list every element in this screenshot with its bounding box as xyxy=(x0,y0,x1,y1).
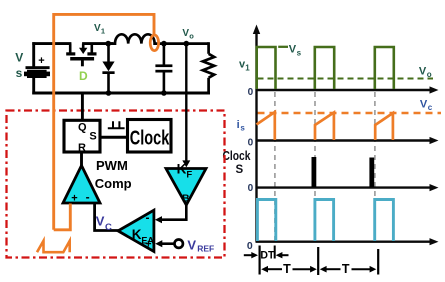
svg-text:o: o xyxy=(427,70,432,79)
grey dashed timing guide at t=2T xyxy=(374,92,376,241)
svg-text:S: S xyxy=(89,130,96,142)
diode cathode wire xyxy=(107,74,110,95)
period tick t=0 xyxy=(259,246,261,275)
svg-text:D: D xyxy=(79,69,88,83)
capacitor bottom wire xyxy=(163,72,166,95)
second T dimension arrows and label xyxy=(320,266,327,273)
svg-text:T: T xyxy=(283,262,291,276)
PWM comparator triangle xyxy=(63,166,100,204)
clock impulse 2 xyxy=(369,158,374,188)
rail junction dot at diode xyxy=(106,90,112,96)
svg-text:+: + xyxy=(38,55,44,67)
DT interval right arrow xyxy=(281,254,289,256)
shared vertical axis xyxy=(255,31,257,242)
clock block box xyxy=(128,120,172,153)
svg-text:s: s xyxy=(16,66,23,80)
svg-text:Clock: Clock xyxy=(223,148,252,163)
svg-text:0: 0 xyxy=(248,138,254,149)
svg-text:F: F xyxy=(186,170,192,181)
svg-text:V: V xyxy=(96,213,105,228)
diode triangle xyxy=(102,62,114,72)
svg-text:Clock: Clock xyxy=(130,127,170,149)
svg-text:V: V xyxy=(419,66,427,78)
orange wire left vertical run xyxy=(52,13,55,230)
resistor bottom wire xyxy=(207,78,210,95)
svg-text:V: V xyxy=(289,44,297,56)
is plot horizontal axis xyxy=(256,139,431,141)
Vs level tick xyxy=(278,46,288,48)
DT interval left arrow xyxy=(244,254,253,256)
svg-text:0: 0 xyxy=(247,240,253,252)
wire KF output to KEA minus input xyxy=(160,205,186,220)
svg-text:DT: DT xyxy=(260,250,274,262)
top rail left segment xyxy=(32,42,71,45)
wire comparator minus input down to Vc node xyxy=(95,202,119,231)
resistor zigzag xyxy=(203,54,214,78)
KF feedback gain triangle xyxy=(166,169,206,206)
battery left vertical wire top xyxy=(32,42,35,66)
svg-text:REF: REF xyxy=(197,244,214,254)
svg-text:-: - xyxy=(86,190,90,204)
svg-text:1: 1 xyxy=(101,27,105,36)
red dash-dot controller boundary xyxy=(7,111,225,258)
MOSFET body arrow xyxy=(82,44,85,49)
svg-text:i: i xyxy=(237,119,240,131)
dashed Vo level line on v1 plot xyxy=(258,77,434,79)
VREF wire and arrow into KEA plus input xyxy=(161,242,174,245)
grey dashed timing guide at end of DT xyxy=(274,92,276,241)
svg-text:C: C xyxy=(105,222,112,233)
period tick t=T xyxy=(317,247,319,275)
dashed Vc level line on is plot xyxy=(258,112,442,114)
svg-text:+: + xyxy=(71,192,77,204)
svg-text:S: S xyxy=(236,164,244,176)
clock impulse 1 xyxy=(311,157,316,187)
svg-text:Q: Q xyxy=(78,121,87,133)
svg-text:PWM: PWM xyxy=(96,158,128,173)
wire latch R to comparator apex xyxy=(80,152,83,166)
current sense loop around inductor output xyxy=(150,35,158,51)
MOSFET gate stub xyxy=(81,60,84,66)
svg-text:c: c xyxy=(428,103,433,112)
battery Vs positive plate xyxy=(26,66,50,69)
MOSFET channel bar xyxy=(70,57,94,61)
battery Vs negative plate block xyxy=(24,72,50,77)
output node Vo dot xyxy=(184,41,190,47)
svg-text:s: s xyxy=(297,48,302,57)
gate drive waveform (blue pulses) xyxy=(257,200,275,242)
svg-text:s: s xyxy=(240,124,245,133)
diode cathode bar xyxy=(102,71,114,74)
MOSFET source contact pad xyxy=(87,52,96,55)
first T dimension arrows and label xyxy=(261,266,268,273)
svg-text:T: T xyxy=(342,262,350,276)
svg-text:V: V xyxy=(187,237,196,252)
svg-text:0: 0 xyxy=(248,87,254,98)
capacitor top plate xyxy=(155,64,172,67)
gate drive wire from latch Q to switch xyxy=(81,95,84,121)
top rail right segment xyxy=(82,42,113,45)
load resistor R: top wire xyxy=(207,42,210,54)
output capacitor C: top wire xyxy=(163,44,166,66)
svg-text:-: - xyxy=(146,211,150,225)
svg-text:1: 1 xyxy=(245,63,250,72)
svg-text:Comp: Comp xyxy=(95,176,132,191)
svg-text:V: V xyxy=(15,51,23,65)
svg-text:V: V xyxy=(420,98,428,110)
is waveform (orange inductor-current ramps) xyxy=(257,112,275,140)
capacitor bottom plate xyxy=(155,70,172,73)
svg-text:o: o xyxy=(189,32,194,41)
svg-text:+: + xyxy=(145,238,151,250)
period tick t=2T xyxy=(377,249,379,275)
battery left vertical wire bottom xyxy=(32,78,35,95)
node after sense loop dot xyxy=(161,41,167,47)
wire clock to latch S xyxy=(100,136,128,139)
clock plot horizontal axis xyxy=(256,186,431,188)
KEA error amplifier triangle xyxy=(118,210,154,251)
rail junction dot at capacitor xyxy=(161,90,167,96)
clock pulse glyph xyxy=(108,121,125,128)
v1 waveform (dark green switching pulses) xyxy=(257,47,276,89)
v1 plot horizontal axis xyxy=(256,89,431,91)
MOSFET source stub xyxy=(91,44,94,53)
sensed ramp waveform glyph xyxy=(37,241,70,252)
orange ramp wire top horizontal run xyxy=(54,13,154,16)
MOSFET drain contact pad xyxy=(66,52,75,55)
orange wire bottom jog to comparator plus input xyxy=(54,204,71,230)
svg-text:0: 0 xyxy=(248,183,254,194)
SR latch box xyxy=(64,120,100,152)
svg-text:B: B xyxy=(182,192,190,204)
orange wire drop to sense loop xyxy=(153,13,156,37)
Vo feedback sense wire down to KF xyxy=(185,44,187,162)
svg-text:K: K xyxy=(177,162,187,177)
bottom return rail xyxy=(32,92,210,95)
VREF terminal circle xyxy=(175,240,183,248)
node V1 dot xyxy=(105,41,111,47)
svg-text:K: K xyxy=(132,227,142,242)
DT tick xyxy=(274,246,276,259)
gate pulse plot horizontal axis xyxy=(256,240,431,242)
inductor L xyxy=(108,34,208,43)
MOSFET switch: drain stub xyxy=(69,44,72,53)
grey dashed timing guide at t=T xyxy=(314,92,316,241)
freewheeling diode D: anode wire xyxy=(107,44,110,62)
